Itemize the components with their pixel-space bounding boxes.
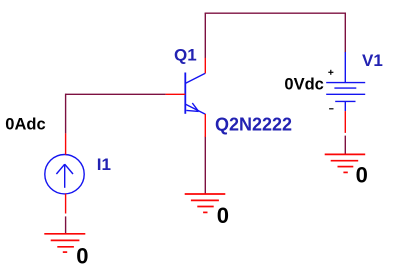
ground (under Q1) [185,194,226,212]
svg-text:I1: I1 [97,155,111,174]
svg-text:Q1: Q1 [174,45,197,64]
svg-text:0: 0 [76,243,88,268]
wire [205,12,346,14]
voltage source V1 [326,52,365,133]
transistor Q1 [166,58,206,137]
ground (under V1) [325,154,366,172]
ground (under I1) [44,234,85,252]
svg-text:0Vdc: 0Vdc [284,75,323,93]
wire [204,137,206,195]
wire [204,13,206,58]
svg-text:0: 0 [356,162,368,187]
svg-text:Q2N2222: Q2N2222 [215,114,292,134]
wire [344,136,346,155]
svg-text:0: 0 [217,203,229,228]
svg-text:0Adc: 0Adc [5,115,45,133]
current source I1 [45,133,84,213]
wire [65,216,67,233]
svg-text:V1: V1 [362,51,383,70]
wire [66,93,166,95]
wire [65,94,67,134]
wire [344,13,346,52]
